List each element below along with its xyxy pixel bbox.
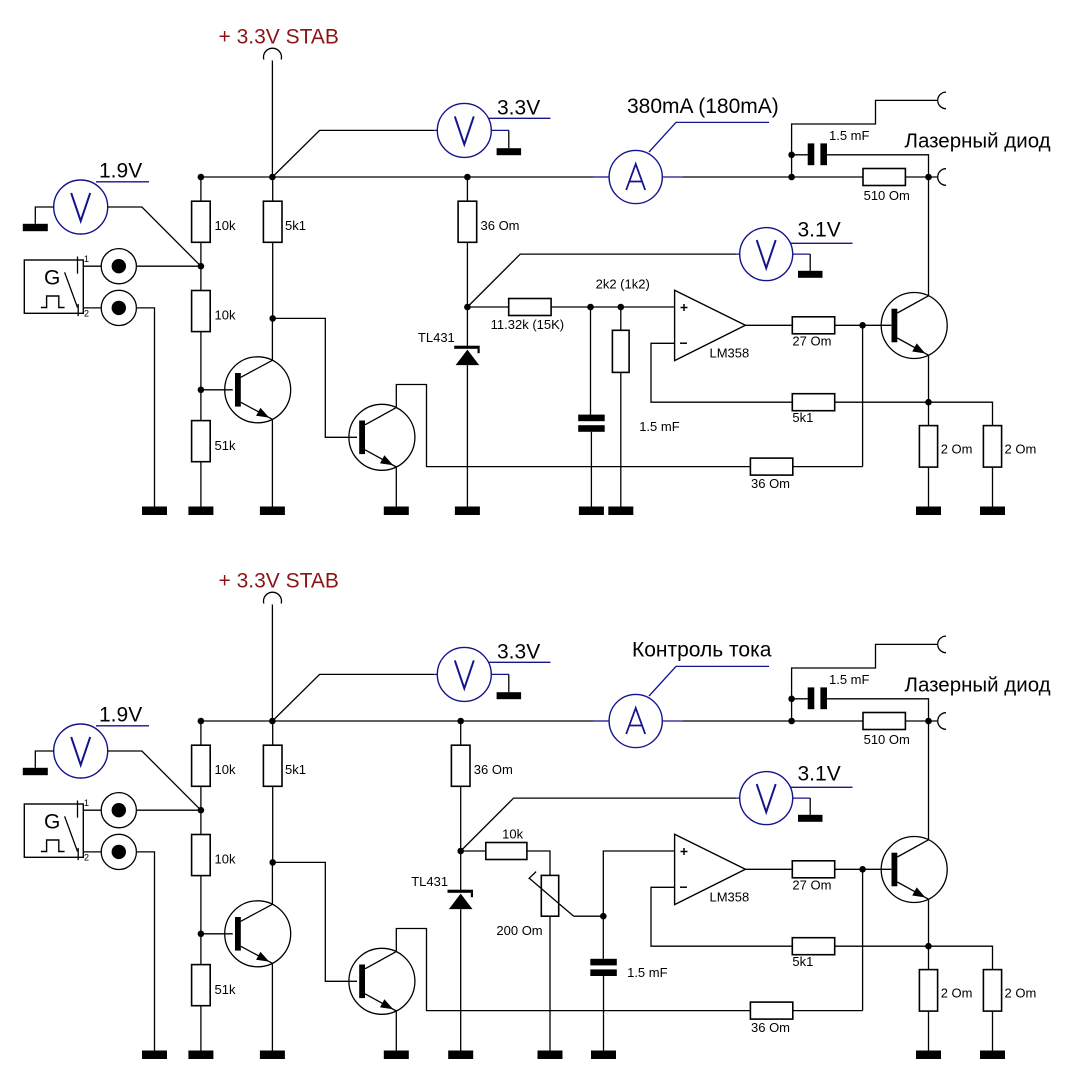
- ground RCA2 (A): [142, 507, 167, 516]
- svg-text:2 Om: 2 Om: [1005, 442, 1037, 457]
- generator pulse symbol (B): [41, 840, 65, 852]
- wire junction to capacitor 1.5mF (A): [792, 154, 808, 156]
- TL431 shunt regulator (B): [448, 890, 474, 909]
- op-amp LM358 (B): [675, 834, 746, 904]
- wire node A to 10k lower (A): [200, 266, 202, 290]
- ground 51k (B): [188, 1051, 213, 1060]
- wire G pin1 to RCA1 (A): [83, 265, 101, 267]
- wire Q3 base to 36 Om feedback (B): [862, 869, 864, 1010]
- capacitor 1.5 mF coupling (A): [808, 143, 827, 165]
- wire node A to 10k lower (B): [200, 810, 202, 834]
- label 3.3V (A): [497, 96, 540, 119]
- svg-text:2 Om: 2 Om: [941, 986, 973, 1001]
- label 1.9V (A): [99, 160, 142, 183]
- wire capacitor to laser column (A): [827, 155, 929, 177]
- svg-text:Лазерный диод: Лазерный диод: [905, 674, 1051, 697]
- wire node B to 11.32k (A): [467, 306, 508, 308]
- svg-text:1.5 mF: 1.5 mF: [829, 128, 870, 143]
- junction 2k2 column (A): [618, 304, 625, 311]
- wire junction to 51k (A): [200, 390, 202, 421]
- svg-text:36 Om: 36 Om: [481, 218, 520, 233]
- svg-text:1.5 mF: 1.5 mF: [639, 419, 680, 434]
- RCA jack 2 (B): [101, 834, 136, 869]
- svg-text:1: 1: [84, 254, 89, 264]
- wire power terminal to bus (B): [271, 605, 273, 722]
- power terminal +3.3V (B): [264, 592, 282, 603]
- resistor 2 Om first (A): [919, 426, 972, 468]
- svg-text:2k2 (1k2): 2k2 (1k2): [596, 277, 650, 292]
- generator pulse symbol (A): [41, 296, 65, 308]
- junction bus left (B): [198, 718, 205, 725]
- junction bus 36 Om column (A): [464, 174, 471, 181]
- svg-text:3.1V: 3.1V: [798, 219, 841, 242]
- resistor 27 Om (A): [792, 317, 834, 349]
- resistor 36 Om series (A): [458, 201, 519, 242]
- svg-text:10k: 10k: [215, 218, 236, 233]
- ammeter (A): [609, 150, 662, 203]
- wire Q2 emitter to ground (A): [395, 467, 397, 507]
- svg-text:1.5 mF: 1.5 mF: [627, 965, 668, 980]
- wire voltmeter 3.3V right stub (A): [491, 129, 509, 131]
- wire opamp output to 27 Om (B): [745, 868, 792, 870]
- svg-text:3.3V: 3.3V: [497, 96, 540, 119]
- svg-text:10k: 10k: [502, 827, 523, 842]
- value 1.5 mF coupling (A): [829, 128, 870, 143]
- wire capacitor to ground (B): [603, 976, 605, 1051]
- pin number 2 (B): [84, 853, 89, 863]
- svg-text:10k: 10k: [215, 762, 236, 777]
- laser diode connector lower pin (B): [938, 713, 946, 730]
- wire opamp output to 27 Om (A): [745, 324, 792, 326]
- junction Q1 collector (A): [269, 315, 276, 322]
- transistor Q3 (A): [881, 293, 947, 359]
- wire RCA1 to node A (A): [136, 265, 201, 267]
- wire G pin1 to RCA1 (B): [83, 809, 101, 811]
- transistor Q2 (B): [349, 948, 415, 1014]
- current label 380mA (180mA) (A): [627, 95, 779, 118]
- wire node B diagonal to voltmeter 3.1V (A): [467, 254, 736, 307]
- wire junction to Q2 base (B): [273, 862, 357, 981]
- wire 10k lower to Q1 base node (A): [200, 332, 202, 390]
- junction capacitor column (A): [587, 304, 594, 311]
- svg-text:51k: 51k: [215, 982, 236, 997]
- wire bus blue stub left of ammeter (B): [593, 720, 609, 722]
- wire bus diagonal to voltmeter 3.3V (A): [272, 130, 434, 177]
- ground 2 Om first (A): [916, 507, 941, 516]
- wire G pin2 to RCA2 (A): [83, 307, 101, 309]
- leader underline 3.1V (B): [791, 786, 853, 788]
- leader line ammeter label (A): [649, 122, 769, 152]
- ground voltmeter 3.1V (B): [798, 815, 823, 822]
- wire bus left segment (B): [201, 720, 593, 722]
- wire voltmeter 3.1V right stub (B): [793, 797, 811, 799]
- wire 51k to ground (B): [200, 1006, 202, 1051]
- svg-text:1.9V: 1.9V: [99, 160, 142, 183]
- junction capacitor top row (A): [788, 152, 795, 159]
- svg-text:1: 1: [84, 798, 89, 808]
- junction bus laser column (B): [925, 718, 932, 725]
- resistor 5k1 divider (A): [263, 201, 306, 242]
- wire Q1 emitter to ground (B): [271, 963, 273, 1050]
- wire blue stub left voltmeter 3.1V (B): [736, 797, 740, 799]
- wire Q3 emitter down (B): [928, 899, 930, 946]
- potentiometer 200 Om body (B): [541, 875, 558, 916]
- ground 2 Om second (B): [980, 1051, 1005, 1060]
- net label +3.3V STAB (A): [219, 25, 339, 48]
- jack switch lever (B): [65, 816, 78, 851]
- leader underline 3.3V (B): [489, 661, 551, 663]
- resistor 36 Om feedback (B): [750, 1002, 792, 1035]
- resistor 2 Om first (B): [919, 970, 972, 1012]
- wire bus to 510 Om (A): [683, 176, 864, 178]
- wire 51k to ground (A): [200, 462, 202, 507]
- wire node B to TL431 (B): [460, 851, 462, 890]
- leader underline 3.3V (A): [489, 117, 551, 119]
- ground Q1 emitter (B): [260, 1051, 285, 1060]
- wire wiper to junction (B): [574, 915, 604, 917]
- leader line ammeter label (B): [649, 666, 769, 696]
- node A divider (B): [198, 807, 205, 814]
- svg-text:5k1: 5k1: [792, 954, 813, 969]
- value 1.5 mF coupling (B): [829, 672, 870, 687]
- pin number 1 (B): [84, 798, 89, 808]
- wire node B to 10k (B): [461, 850, 486, 852]
- label Лазерный диод (B): [905, 674, 1051, 697]
- ground 2k2 (A): [608, 507, 633, 516]
- label TL431 (B): [411, 874, 448, 889]
- wire Q3 collector to laser (A): [928, 177, 930, 296]
- voltmeter 3.3V (A): [437, 103, 491, 157]
- wire bus blue stub right of ammeter (A): [663, 176, 683, 178]
- wire opamp - input loop (A): [651, 343, 792, 402]
- wire opamp - input loop (B): [651, 887, 792, 946]
- leader underline 3.1V (A): [791, 242, 853, 244]
- jack contact pin 2 (B): [77, 848, 79, 860]
- wire Q1 collector up (B): [271, 862, 273, 904]
- resistor 510 Om (A): [863, 169, 910, 203]
- capacitor 1.5 mF filter (B): [590, 959, 617, 976]
- wire Q1 base (A): [201, 389, 233, 391]
- wire voltmeter 3.1V right stub (A): [793, 253, 811, 255]
- potentiometer wiper arrow (B): [529, 872, 574, 917]
- wire 2 Om 1 to ground (B): [928, 1011, 930, 1050]
- wire power terminal to bus (A): [271, 61, 273, 178]
- wire junction to Q2 base (A): [273, 318, 357, 437]
- wire potentiometer to ground (B): [549, 916, 551, 1050]
- resistor 2 Om second (B): [983, 970, 1036, 1012]
- wire Q3 base to 36 Om feedback (A): [862, 325, 864, 466]
- node B reference (A): [464, 304, 471, 311]
- ground voltmeter 3.3V (B): [497, 692, 521, 699]
- leader underline 1.9V (B): [96, 725, 149, 727]
- svg-text:510 Om: 510 Om: [864, 188, 910, 203]
- svg-text:5k1: 5k1: [285, 218, 306, 233]
- wire bus to 10k upper (B): [200, 721, 202, 745]
- transistor Q3 (B): [881, 837, 947, 903]
- label LM358 (B): [710, 890, 750, 905]
- svg-text:G: G: [44, 811, 60, 834]
- pin number 1 (A): [84, 254, 89, 264]
- transistor Q1 (A): [225, 357, 291, 423]
- voltmeter 3.3V (B): [437, 647, 491, 701]
- ground filter capacitor (B): [591, 1051, 616, 1060]
- junction bus power column (A): [269, 174, 276, 181]
- svg-text:10k: 10k: [215, 852, 236, 867]
- wire 5k1 feedback to emitter node (B): [835, 945, 929, 947]
- wire capacitor to laser column (B): [827, 699, 929, 721]
- ground filter capacitor (A): [579, 507, 604, 516]
- generator letter G (B): [44, 811, 60, 834]
- resistor 27 Om (B): [792, 861, 834, 893]
- svg-text:36 Om: 36 Om: [474, 762, 513, 777]
- ground voltmeter 1.9V (A): [23, 224, 48, 231]
- svg-text:G: G: [44, 267, 60, 290]
- ground voltmeter 3.1V (A): [798, 271, 823, 278]
- svg-text:1.9V: 1.9V: [99, 704, 142, 727]
- svg-text:27 Om: 27 Om: [792, 878, 831, 893]
- junction bus capacitor column (B): [788, 718, 795, 725]
- label 3.1V (B): [798, 763, 841, 786]
- svg-text:1.5 mF: 1.5 mF: [829, 672, 870, 687]
- wire voltmeter 3.3V to ground (B): [508, 674, 510, 692]
- wire 10k to node A (A): [200, 242, 202, 266]
- wire 27 Om to Q3 base (A): [835, 324, 892, 326]
- ground TL431 (B): [448, 1051, 473, 1060]
- wire junction to opamp + (B): [603, 851, 674, 916]
- wire capacitor to ground (A): [590, 432, 592, 507]
- wire 2 Om 2 to ground (B): [992, 1011, 994, 1050]
- svg-text:2: 2: [84, 309, 89, 319]
- wire blue stub left voltmeter 3.1V (A): [736, 253, 740, 255]
- wire voltmeter 1.9V to node A (A): [108, 207, 201, 266]
- wire node B diagonal to voltmeter 3.1V (B): [461, 798, 737, 851]
- wire emitter node to 2 Om 2 (B): [929, 946, 993, 969]
- voltmeter 1.9V (A): [54, 180, 108, 234]
- wire voltmeter 1.9V to node A (B): [108, 751, 201, 810]
- wire Q2 collector loop (A): [396, 385, 751, 467]
- op-amp LM358 (A): [675, 290, 746, 360]
- wire TL431 to ground (B): [460, 909, 462, 1050]
- resistor 5k1 feedback (B): [792, 938, 834, 969]
- ground voltmeter 1.9V (B): [23, 768, 48, 775]
- label 1.9V (B): [99, 704, 142, 727]
- wire bus to 5k1 (A): [272, 177, 274, 201]
- capacitor 1.5 mF filter (A): [578, 415, 605, 432]
- wire bus to 36 Om (B): [460, 721, 462, 745]
- ground 2 Om first (B): [916, 1051, 941, 1060]
- leader underline 1.9V (A): [96, 181, 149, 183]
- label TL431 (A): [418, 330, 455, 345]
- svg-text:5k1: 5k1: [285, 762, 306, 777]
- jack contact pin 1 (A): [77, 257, 79, 274]
- power terminal +3.3V (A): [264, 48, 282, 59]
- junction bus laser column (A): [925, 174, 932, 181]
- resistor 510 Om (B): [863, 713, 910, 747]
- wire 36 Om to node B (B): [460, 786, 462, 851]
- wire junction to capacitor 1.5mF (B): [792, 698, 808, 700]
- wire 10k to potentiometer (B): [527, 851, 550, 875]
- jack switch lever (A): [65, 272, 78, 307]
- svg-text:36 Om: 36 Om: [751, 1020, 790, 1035]
- wire node B to TL431 (A): [466, 307, 468, 346]
- wire RCA1 to node A (B): [136, 809, 201, 811]
- jack contact pin 1 (B): [77, 801, 79, 818]
- label Контроль тока (B): [632, 638, 772, 661]
- ground voltmeter 3.3V (A): [497, 148, 521, 155]
- svg-text:LM358: LM358: [710, 346, 750, 361]
- wire Q3 collector to laser (B): [928, 721, 930, 840]
- wire 11.32k to opamp + (A): [551, 306, 674, 308]
- junction Q1 base (A): [198, 387, 205, 394]
- ground RCA2 (B): [142, 1051, 167, 1060]
- label 3.3V (B): [497, 640, 540, 663]
- svg-text:380mA (180mA): 380mA (180mA): [627, 95, 779, 118]
- svg-text:11.32k (15K): 11.32k (15K): [491, 317, 564, 332]
- wire voltmeter 3.1V to ground (A): [809, 254, 811, 271]
- ground potentiometer (B): [538, 1051, 563, 1060]
- svg-text:+ 3.3V STAB: + 3.3V STAB: [219, 25, 339, 48]
- wire 5k1 feedback to emitter node (A): [835, 401, 929, 403]
- voltmeter 3.1V (B): [740, 772, 793, 825]
- wire blue stub left voltmeter 3.3V (B): [434, 673, 437, 675]
- wire RCA2 to ground (A): [136, 308, 154, 507]
- junction emitter node (A): [925, 399, 932, 406]
- svg-text:510 Om: 510 Om: [864, 732, 910, 747]
- svg-text:+ 3.3V STAB: + 3.3V STAB: [219, 569, 339, 592]
- node B reference (B): [457, 848, 464, 855]
- ground 2 Om second (A): [980, 507, 1005, 516]
- wire bus to 510 Om (B): [683, 720, 864, 722]
- svg-text:LM358: LM358: [710, 890, 750, 905]
- wire laser top connector (A): [792, 100, 938, 177]
- resistor 10k upper (A): [192, 201, 236, 242]
- svg-text:10k: 10k: [215, 308, 236, 323]
- resistor 10k upper (B): [192, 745, 236, 786]
- resistor 2k2 (A): [612, 330, 629, 372]
- junction Q1 base (B): [198, 931, 205, 938]
- wire G pin2 to RCA2 (B): [83, 851, 101, 853]
- wire junction to capacitor 1.5mF (B): [602, 916, 604, 959]
- wire 510 Om to laser connector (A): [905, 176, 937, 178]
- laser diode connector upper pin (B): [938, 636, 946, 653]
- label 3.1V (A): [798, 219, 841, 242]
- transistor Q2 (A): [349, 404, 415, 470]
- laser diode connector upper pin (A): [938, 92, 946, 109]
- generator G box (B): [24, 804, 83, 857]
- value 1.5 mF filter (A): [639, 419, 680, 434]
- svg-text:27 Om: 27 Om: [792, 334, 831, 349]
- wire junction to 51k (B): [200, 934, 202, 965]
- wire emitter node to 2 Om 1 (A): [928, 402, 930, 425]
- ammeter (B): [609, 694, 662, 747]
- pin number 2 (A): [84, 309, 89, 319]
- wire 36 Om feedback right (B): [792, 1010, 862, 1012]
- voltmeter 1.9V (B): [54, 724, 108, 778]
- junction wiper node (B): [600, 913, 607, 920]
- wire Q1 base (B): [201, 933, 233, 935]
- wire 2 Om 1 to ground (A): [928, 467, 930, 506]
- voltmeter 3.1V (A): [740, 228, 793, 281]
- ground Q2 emitter (A): [384, 507, 409, 516]
- wire emitter node to 2 Om 2 (A): [929, 402, 993, 425]
- junction Q3 base (A): [859, 322, 866, 329]
- svg-text:2 Om: 2 Om: [1005, 986, 1037, 1001]
- wire Q1 collector up (A): [271, 318, 273, 360]
- wire TL431 to ground (A): [466, 365, 468, 506]
- wire 36 Om feedback right (A): [792, 466, 862, 468]
- net label +3.3V STAB (B): [219, 569, 339, 592]
- wire 10k lower to Q1 base node (B): [200, 876, 202, 934]
- wire bus blue stub right of ammeter (B): [663, 720, 683, 722]
- wire 5k1 to Q1 collector node (A): [272, 242, 274, 318]
- wire voltmeter 3.3V right stub (B): [491, 673, 509, 675]
- junction bus power column (B): [269, 718, 276, 725]
- ground TL431 (A): [455, 507, 480, 516]
- wire emitter node to 2 Om 1 (B): [928, 946, 930, 969]
- wire bus to 10k upper (A): [200, 177, 202, 201]
- generator letter G (A): [44, 267, 60, 290]
- wire bus to 5k1 (B): [272, 721, 274, 745]
- wire voltmeter 1.9V left to ground (A): [35, 207, 53, 224]
- svg-text:2 Om: 2 Om: [941, 442, 973, 457]
- wire 2 Om 2 to ground (A): [992, 467, 994, 506]
- resistor 5k1 feedback (A): [792, 394, 834, 425]
- svg-text:5k1: 5k1: [792, 410, 813, 425]
- RCA jack 1 (A): [101, 249, 136, 284]
- capacitor 1.5 mF coupling (B): [808, 687, 827, 709]
- node A divider (A): [198, 263, 205, 270]
- wire voltmeter 1.9V left to ground (B): [35, 751, 53, 768]
- junction bus capacitor column (A): [788, 174, 795, 181]
- svg-text:200 Om: 200 Om: [496, 923, 542, 938]
- RCA jack 1 (B): [101, 793, 136, 828]
- svg-text:TL431: TL431: [411, 874, 448, 889]
- resistor 10k lower (A): [192, 291, 236, 332]
- junction bus 36 Om column (B): [457, 718, 464, 725]
- resistor 51k (A): [192, 421, 236, 462]
- jack contact pin 2 (A): [77, 304, 79, 316]
- svg-text:Контроль тока: Контроль тока: [632, 638, 772, 661]
- transistor Q1 (B): [225, 901, 291, 967]
- wire 27 Om to Q3 base (B): [835, 868, 892, 870]
- wire junction to 2k2 (A): [620, 307, 622, 330]
- resistor 2 Om second (A): [983, 426, 1036, 468]
- ground Q2 emitter (B): [384, 1051, 409, 1060]
- ground 51k (A): [188, 507, 213, 516]
- TL431 shunt regulator (A): [454, 346, 480, 365]
- value 200 Om (B): [496, 923, 542, 938]
- wire bus diagonal to voltmeter 3.3V (B): [272, 674, 434, 721]
- wire bus to 36 Om (A): [466, 177, 468, 201]
- value 1.5 mF filter (B): [627, 965, 668, 980]
- junction Q3 base (B): [859, 866, 866, 873]
- wire blue stub left voltmeter 3.3V (A): [434, 129, 437, 131]
- resistor 36 Om feedback (A): [750, 458, 792, 491]
- junction capacitor top row (B): [788, 696, 795, 703]
- wire 36 Om to node B (A): [466, 242, 468, 307]
- wire Q2 collector loop (B): [396, 929, 751, 1011]
- laser diode connector lower pin (A): [938, 169, 946, 186]
- value 2k2 (1k2) (A): [596, 277, 650, 292]
- RCA jack 2 (A): [101, 290, 136, 325]
- ground Q1 emitter (A): [260, 507, 285, 516]
- label Лазерный диод (A): [905, 130, 1051, 153]
- wire 5k1 to Q1 collector node (B): [272, 786, 274, 862]
- resistor 51k (B): [192, 965, 236, 1006]
- wire 510 Om to laser connector (B): [905, 720, 937, 722]
- label LM358 (A): [710, 346, 750, 361]
- wire bus left segment (A): [201, 176, 593, 178]
